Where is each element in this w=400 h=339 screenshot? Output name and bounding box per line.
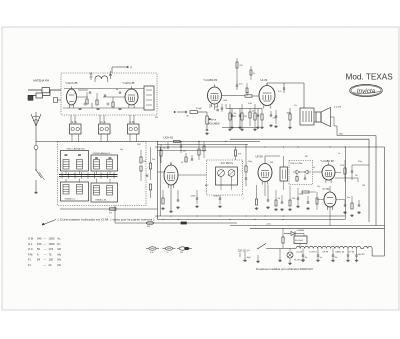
svg-text:173: 173 [49, 247, 54, 251]
svg-text:½ ECC 85: ½ ECC 85 [66, 81, 79, 85]
svg-text:470: 470 [109, 213, 112, 215]
svg-text:—: — [44, 264, 47, 267]
svg-text:6.3v: 6.3v [150, 252, 154, 254]
svg-text:100: 100 [49, 258, 54, 262]
svg-text:470pF: 470pF [196, 108, 202, 110]
svg-text:47n: 47n [234, 113, 237, 115]
svg-text:50n: 50n [347, 197, 350, 199]
svg-text:Tensiones medidas con voltí: Tensiones medidas con voltímetro 20000 Ω… [256, 268, 313, 271]
svg-text:S. M.: S. M. [72, 121, 78, 124]
svg-text:F.M. 10.7Mc: F.M. 10.7Mc [291, 163, 304, 165]
svg-text:VOLUMEN: VOLUMEN [208, 124, 220, 126]
svg-text:A.M. 452 Kc: A.M. 452 Kc [221, 162, 234, 165]
svg-text:470pF: 470pF [191, 196, 197, 198]
svg-text:50+50µF: 50+50µF [295, 240, 304, 242]
svg-text:330: 330 [155, 117, 158, 119]
svg-text:—: — [44, 259, 47, 262]
svg-text:O.C.: O.C. [28, 247, 34, 251]
svg-text:45v: 45v [305, 257, 308, 259]
svg-text:8K2: 8K2 [305, 156, 308, 158]
svg-text:40p: 40p [120, 149, 123, 151]
svg-text:F.I.: F.I. [28, 263, 32, 267]
svg-text:470p: 470p [358, 161, 362, 163]
svg-text:200p: 200p [299, 194, 303, 196]
svg-text:F: F [131, 66, 133, 70]
svg-text:14v: 14v [180, 252, 183, 254]
svg-text:—: — [44, 243, 47, 246]
svg-text:—: — [44, 248, 47, 251]
svg-text:1600: 1600 [49, 237, 55, 241]
svg-text:( Conmutador indicado en O.M.: ( Conmutador indicado en O.M. ( visto po… [58, 218, 155, 221]
svg-text:25µ: 25µ [317, 186, 320, 188]
svg-text:1n: 1n [253, 73, 255, 75]
svg-text:25p: 25p [152, 159, 155, 161]
svg-text:ANTENA FM: ANTENA FM [33, 79, 50, 83]
svg-text:ONDA C.C.: ONDA C.C. [65, 197, 77, 200]
svg-text:F. M.: F. M. [130, 121, 136, 124]
svg-text:100p: 100p [248, 161, 252, 163]
svg-text:a 50B5A: a 50B5A [297, 229, 305, 232]
svg-text:170: 170 [273, 118, 276, 120]
svg-text:50: 50 [37, 247, 40, 251]
svg-text:540: 540 [37, 237, 42, 241]
svg-text:Invicta: Invicta [357, 88, 376, 95]
svg-text:58v: 58v [335, 257, 338, 259]
svg-text:½ UABC 80: ½ UABC 80 [321, 159, 335, 163]
svg-text:47n: 47n [294, 105, 297, 107]
svg-text:OND. LARGA S.M.: OND. LARGA S.M. [67, 147, 86, 150]
svg-text:O. C.: O. C. [101, 121, 107, 124]
svg-text:150: 150 [37, 242, 42, 246]
svg-text:½ UABC 80: ½ UABC 80 [204, 78, 218, 82]
svg-text:84: 84 [37, 258, 40, 262]
svg-text:UY 85: UY 85 [349, 252, 356, 254]
svg-text:FUS: FUS [147, 226, 150, 228]
svg-text:Mod. TEXAS: Mod. TEXAS [346, 73, 394, 82]
svg-text:ONDA C.M.: ONDA C.M. [95, 199, 107, 202]
svg-text:UF 89: UF 89 [256, 154, 264, 158]
svg-text:0.5M: 0.5M [248, 103, 252, 105]
svg-text:8p: 8p [116, 89, 118, 91]
svg-text:1600: 1600 [49, 242, 55, 246]
svg-text:O.L.: O.L. [28, 242, 33, 246]
svg-text:UCH 81: UCH 81 [310, 252, 318, 254]
svg-text:UCH 81: UCH 81 [164, 135, 174, 139]
svg-text:1n: 1n [74, 93, 76, 95]
svg-text:F.M.: F.M. [28, 252, 33, 256]
svg-text:4.7n: 4.7n [278, 91, 282, 93]
svg-text:½ ECC 85: ½ ECC 85 [123, 81, 136, 85]
svg-text:UL 84: UL 84 [261, 78, 268, 82]
svg-text:54v: 54v [320, 257, 323, 259]
svg-text:UL 84: UL 84 [297, 252, 303, 254]
svg-text:220-125 V∼: 220-125 V∼ [238, 251, 251, 253]
svg-text:50p: 50p [163, 148, 166, 150]
svg-text:24: 24 [49, 263, 52, 267]
svg-text:220: 220 [183, 151, 186, 153]
svg-text:UY 85: UY 85 [323, 189, 330, 191]
svg-text:4 Ω 5W: 4 Ω 5W [334, 107, 341, 109]
svg-text:UF 89: UF 89 [323, 252, 329, 254]
svg-text:UABC 80: UABC 80 [336, 251, 345, 254]
svg-text:470pF: 470pF [214, 196, 220, 198]
svg-text:1n: 1n [313, 167, 315, 169]
svg-text:402 W5: 402 W5 [358, 254, 365, 256]
svg-text:—: — [44, 238, 47, 241]
svg-text:75: 75 [49, 252, 52, 256]
svg-text:0.01: 0.01 [239, 84, 243, 86]
svg-text:7v: 7v [167, 252, 169, 254]
svg-text:O.M.: O.M. [28, 237, 34, 241]
svg-text:2n: 2n [338, 153, 340, 155]
svg-text:0.1: 0.1 [181, 162, 183, 164]
svg-text:—: — [44, 253, 47, 256]
svg-text:TRIPLE: TRIPLE [209, 120, 217, 122]
svg-text:F.I.: F.I. [28, 258, 32, 262]
